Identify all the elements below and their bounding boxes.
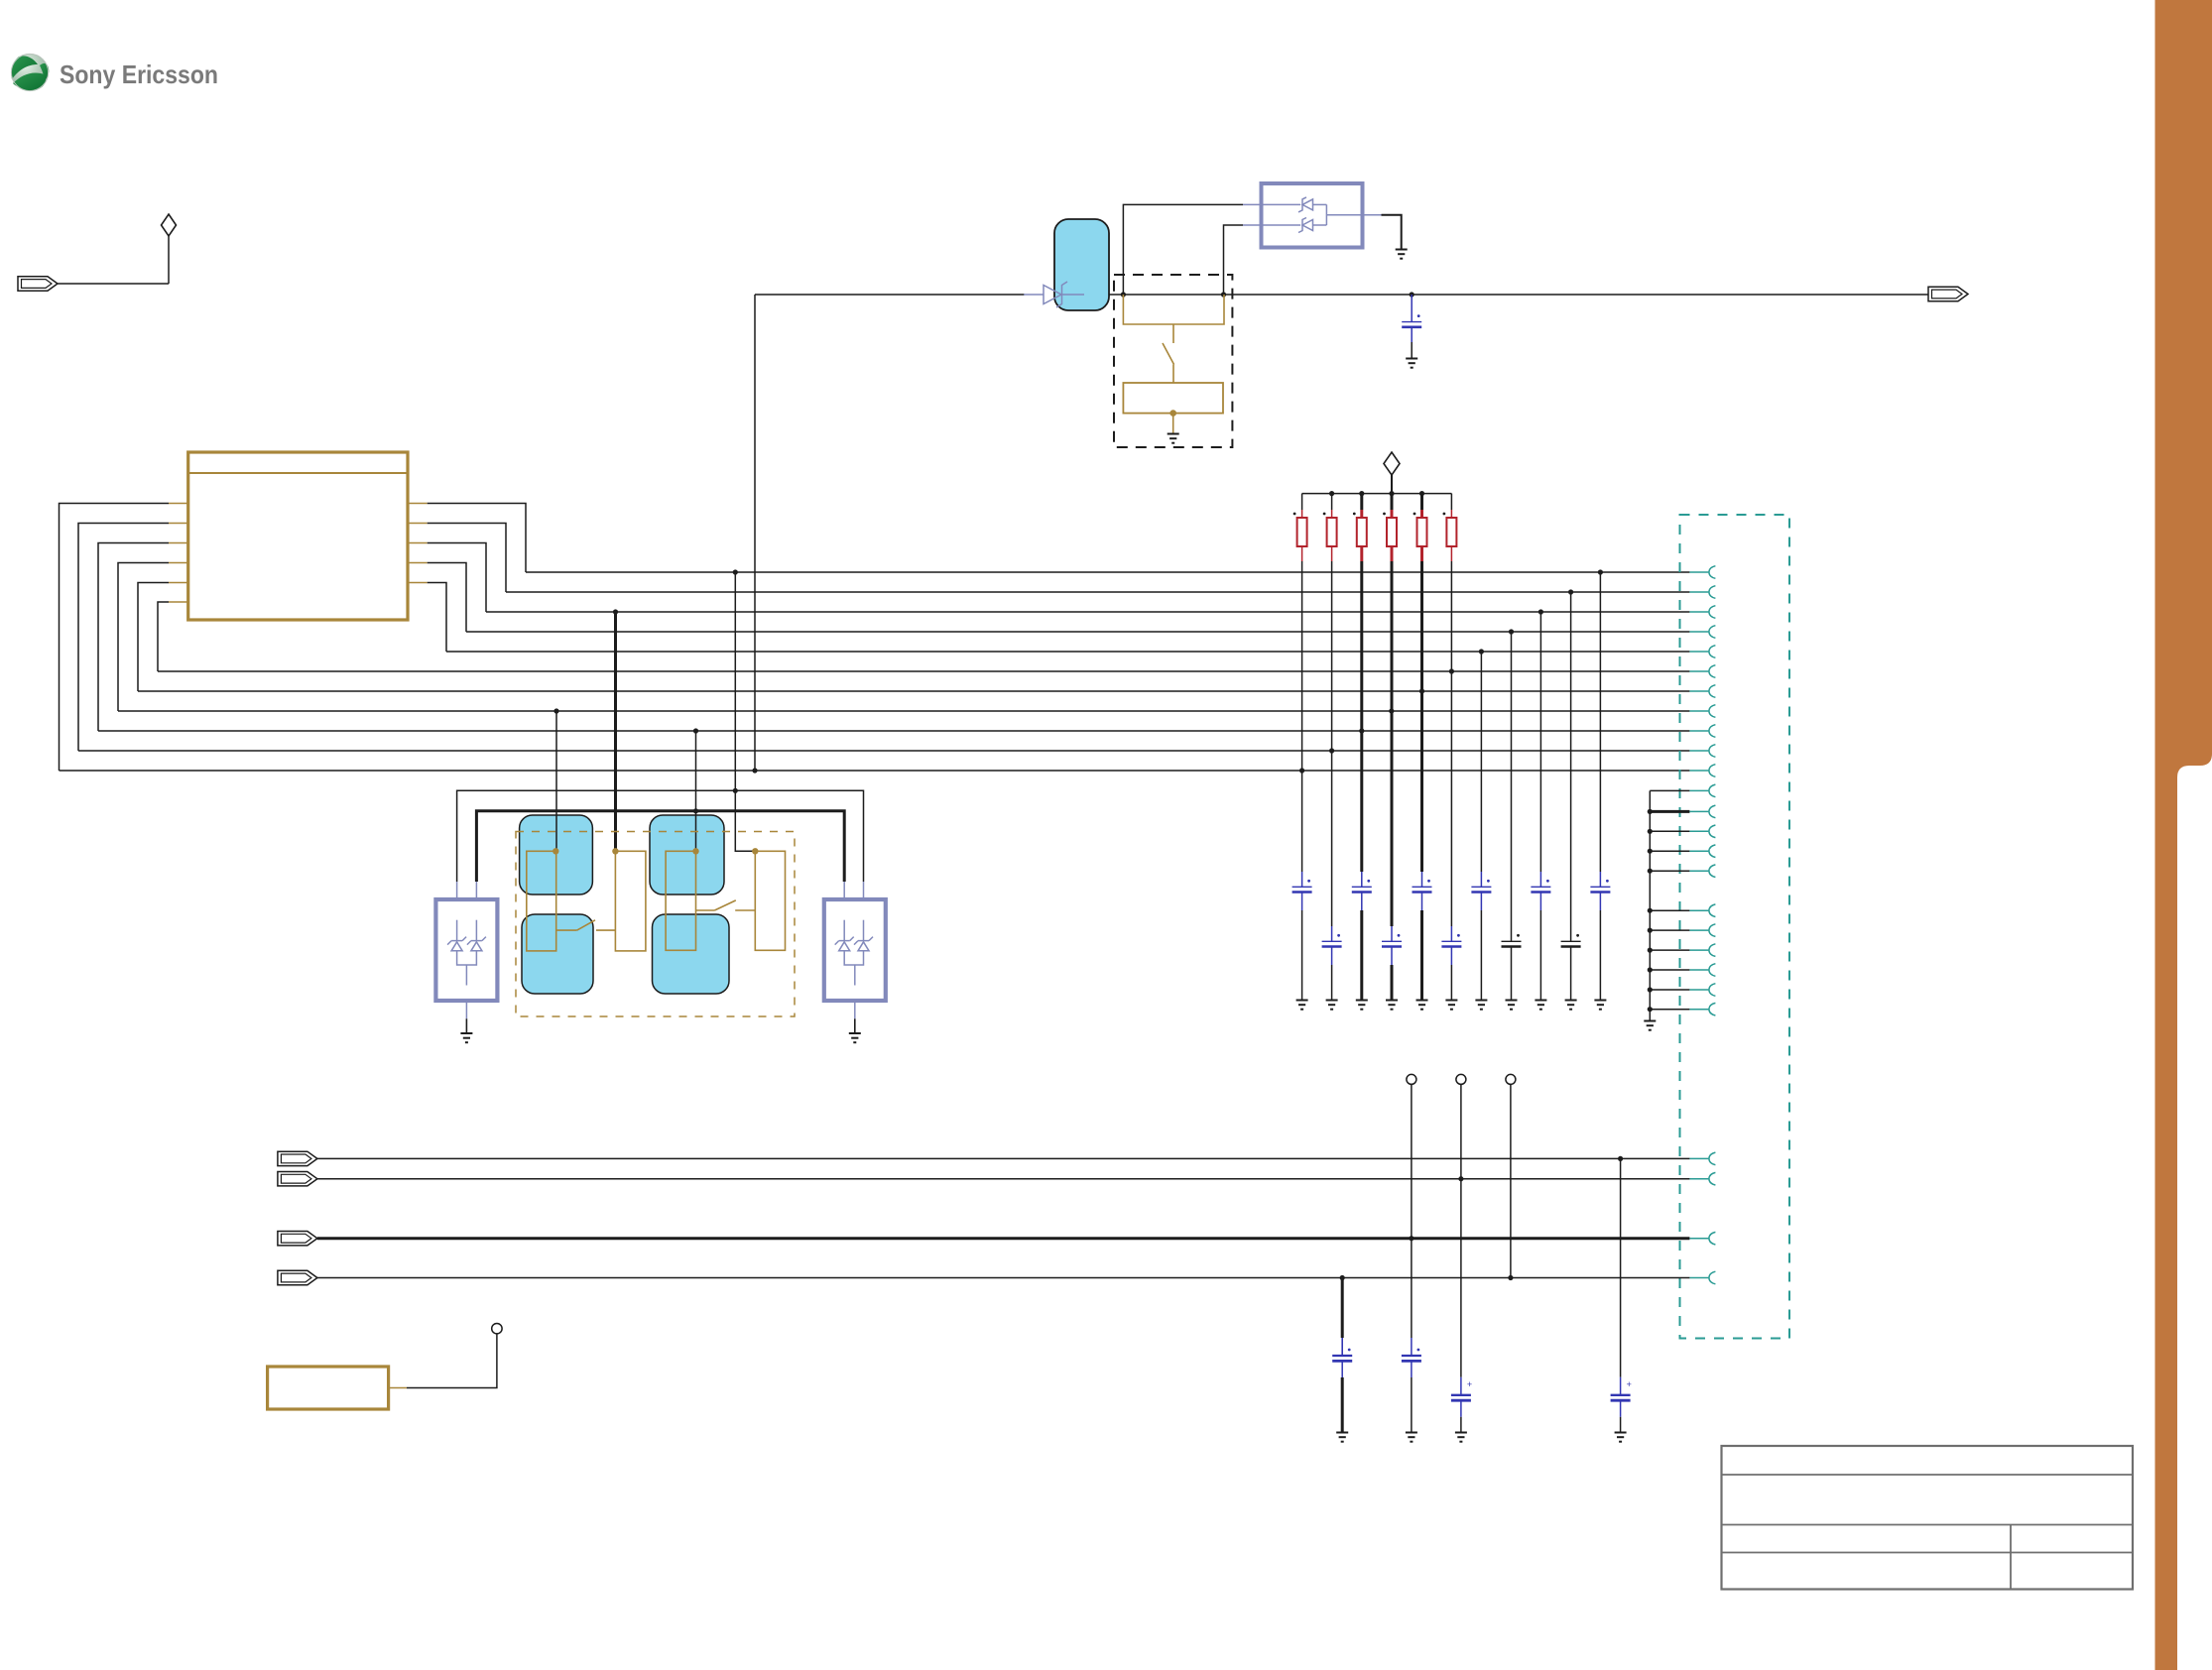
connector J1 pin 10 [1689,750,1708,752]
capacitor C6 lead top [1421,872,1423,887]
connector J1 pin 7 [1689,690,1708,692]
capacitor C3 lead top [1331,926,1333,941]
wire IC right pin 3 to bus [428,543,486,613]
IC U1 right pin 4 stub [408,562,428,564]
switch S1 stem [1172,324,1174,343]
capacitor C7 lead bottom [1450,947,1452,966]
junction line 9 x=701 [693,728,698,733]
resistor rail [1302,493,1452,495]
switch S3 blade [714,900,735,910]
IC U1 right pin 1 stub [408,503,428,505]
tan junction 1 [553,848,558,854]
wire to D2 pin1 [1123,204,1243,295]
junction tan battery ID [1169,410,1176,417]
connector flag AUDIO4 [278,1270,317,1284]
resistor R4 [1387,518,1397,546]
junction bus line 9 to column [1359,728,1364,733]
component box U2 (tan) [268,1367,389,1409]
ground at connector bar [1644,1021,1656,1030]
capacitor C2 lead bottom [1301,893,1303,911]
wire C13 upper [1341,1338,1343,1356]
capacitor C12 lead top [1599,872,1601,887]
pin stub D2 pin1 [1243,203,1262,205]
capacitor C9 lead top [1511,926,1513,941]
title block row line 3 [1722,1552,2134,1554]
capacitor C10 [1531,886,1550,888]
resistor R4 lead bottom [1391,546,1394,561]
capacitor C4 [1352,886,1372,888]
IC U1 left pin 1 stub [169,503,188,505]
ground column 6 [1445,1001,1457,1010]
junction ground bar 4 [1648,849,1653,854]
resistor R6 [1446,518,1456,546]
junction ground bar 8 [1648,948,1653,953]
junction bus line 1 to column [1598,569,1603,574]
connector flag AUDIO1 [278,1151,317,1165]
D4 (right) lead pin1 outside [843,882,845,899]
switch S1 blade [1163,343,1174,365]
capacitor C16 [1620,1377,1622,1395]
wire audio line 2 [317,1178,1690,1180]
resistor R2 lead top [1331,510,1333,518]
D2 zener diode bottom [1298,218,1306,233]
test point TP1 [1407,1074,1416,1084]
capacitor C2 [1292,886,1312,888]
connector J1 pin 2 [1689,591,1708,593]
junction bus line 10 to column [1329,748,1334,753]
capacitor C11 lead bottom [1570,947,1572,966]
wire ID box to ground [1172,414,1174,433]
junction resistor rail [1359,491,1364,496]
bus wire line 6 (y=677) [158,670,1689,672]
D4 (right) lead pin2 outside [863,882,865,899]
connector J1 dashed outline [1680,515,1790,1339]
wire bus to audio x=620 (bold) [614,612,617,851]
switch S3 pole [696,909,715,911]
switch S2 throw [596,929,615,931]
IC U1 right pin 5 stub [408,582,428,584]
IC U1 left pin 5 stub [169,582,188,584]
D3 (left) join [457,951,477,965]
D2 zener diode top [1298,197,1306,212]
capacitor C15 [1460,1377,1462,1395]
tan junction 2 [612,848,618,854]
capacitor C4 lead top [1361,872,1363,887]
junction bus line11 x=761 [752,768,757,773]
ground battery ID [1167,434,1179,443]
connector flag VBAT (right) [1928,287,1968,300]
junction bus line 11 to column [1299,768,1304,773]
title block row line 1 [1722,1474,2134,1476]
wire column 2 upper [1331,561,1333,926]
resistor R2 [1327,518,1337,546]
wire main VBAT rail right [1108,294,1928,296]
connector flag VBAT (top-left) [18,277,58,291]
connector J1 pin 1 [1689,571,1708,573]
D2 output wire black [1382,215,1402,249]
capacitor C6 lead bottom [1421,893,1423,911]
wire main VBAT rail [755,294,1025,296]
wire ground-bar pin 18 [1650,929,1689,931]
wire column 5 upper [1420,561,1423,872]
wire ground-bar pin 17 [1650,909,1689,911]
ground column 5 [1416,1001,1428,1010]
wire column 4 upper [1391,561,1394,926]
junction bus line 3 to column [1538,609,1543,614]
bus wire line 10 (y=757) [78,750,1689,752]
tan loop B [615,851,646,951]
thermistor U-link (tan) [1123,295,1224,324]
diamond power node (top-left) [162,214,177,236]
junction ground bar 7 [1648,928,1653,933]
wire ground-bar pin 16 [1650,870,1689,872]
IC U1 title separator [188,472,408,474]
capacitor C11 [1561,940,1581,942]
junction ground bar 11 [1648,1007,1653,1012]
wire ground-bar pin 12 [1650,789,1689,791]
ground column 9 [1535,1001,1546,1010]
wire audio line 3 (bold) [317,1237,1690,1240]
connector J1 pin 22 [1689,1009,1708,1011]
capacitor C2 lead top [1301,872,1303,887]
wire TP1 to C14 [1411,1239,1413,1338]
resistor R6 lead top [1450,510,1452,518]
connector J1 pin 17 [1689,909,1708,911]
wire to D2 pin2 [1224,225,1244,295]
wire column 7 upper [1480,652,1482,872]
wire flag to corner [58,283,169,285]
junction resistor rail [1389,491,1394,496]
IC U1 left pin 3 stub [169,542,188,544]
speaker box SP4 (bottom-right) [653,914,730,994]
junction ground bar 5 [1648,869,1653,874]
svg-text:+: + [1467,1379,1472,1389]
wire ground-bar pin 20 [1650,969,1689,971]
Sony Ericsson logo sphere [11,54,49,91]
ground at C1 [1406,359,1417,368]
resistor R3 lead bottom [1360,546,1363,561]
D3 (left) ground lead [465,1001,467,1018]
svg-text:Sony Ericsson: Sony Ericsson [60,60,218,89]
wire bus to audio x=701 [695,731,697,851]
capacitor C12 lead bottom [1599,893,1601,911]
tan junction 4 [752,848,758,854]
resistor R1 lead bottom [1301,546,1303,561]
diamond power node (resistors) [1384,452,1400,475]
resistor R5 lead top [1420,510,1423,518]
wire IC left pin 3 to bus [98,543,169,732]
test point TP3 [1506,1074,1516,1084]
D3 (left) lead pin2 outside [475,882,477,899]
connector J1 pin 13 [1689,810,1708,812]
wire TP3 down [1510,1084,1512,1277]
wire rail to resistor R3 [1360,494,1363,510]
wire rail to resistor R6 [1450,494,1452,510]
capacitor C11 lead top [1570,926,1572,941]
wire vertical from main rail to bus [754,295,756,771]
connector J1 pin 5 [1689,651,1708,653]
wire U2 to test point [407,1334,497,1388]
capacitor C1 lead top [1411,295,1413,322]
resistor R6 lead bottom [1450,546,1452,561]
IC U1 right pin 2 stub [408,523,428,525]
wire column 1 upper [1301,561,1303,872]
connector J1 pin 24 [1689,1178,1708,1180]
junction ground bar 10 [1648,987,1653,992]
junction bus line 7 to column [1419,688,1424,693]
connector J1 pin 26 [1689,1277,1708,1279]
capacitor C13 [1341,1338,1343,1356]
capacitor C10 lead bottom [1539,893,1541,911]
wire IC left pin 1 to bus [60,504,170,772]
ground column 11 [1594,1001,1606,1010]
bus wire line 4 (y=637) [466,631,1689,633]
connector J1 pin 20 [1689,969,1708,971]
junction line 3 x=620 [613,609,618,614]
switch S1 to box [1172,365,1174,384]
connector J1 pin 4 [1689,631,1708,633]
junction line4 x=1523 [1508,1275,1513,1280]
D2 internal lead2 [1262,224,1301,226]
junction bus line 4 to column [1509,629,1514,634]
wire bus to audio x=561 [555,711,557,851]
switch S2 pole [556,929,577,931]
capacitor C7 [1441,940,1461,942]
IC U1 left pin 2 stub [169,523,188,525]
capacitor C5 [1382,940,1402,942]
title block row line 2 [1722,1524,2134,1526]
D3 (left) lead pin1 inside [456,920,458,941]
connector J1 pin 6 [1689,670,1708,672]
wire IC left pin 6 to bus [158,602,169,671]
wire audio line 4 [317,1277,1690,1279]
junction ground bar 2 [1648,809,1653,814]
IC U1 box [188,452,408,620]
bus wire line 9 (y=737) [98,730,1689,732]
IC U1 right pin 3 stub [408,542,428,544]
IC U1 left pin 6 stub [169,601,188,603]
junction resistor rail [1419,491,1424,496]
D4 (right) center lead [854,965,856,986]
wire rail to resistor R1 [1301,494,1303,510]
ground column 2 [1326,1001,1338,1010]
resistor R1 [1297,518,1307,546]
connector J1 pin 16 [1689,870,1708,872]
D4 (right) zener 1 [839,940,850,942]
resistor R5 lead bottom [1420,546,1423,561]
junction main-rail x=1132 [1121,292,1126,297]
wire IC left pin 2 to bus [78,524,169,752]
ground at D2 output [1396,250,1408,259]
IC U1 left pin 4 stub [169,562,188,564]
junction audio thick-net x=701 [693,808,698,813]
wire TP1 down [1411,1084,1413,1238]
diode D1 leads [1024,294,1044,296]
wire column 10 upper [1570,592,1572,926]
resistor R5 [1417,518,1427,546]
resistor R2 lead bottom [1331,546,1333,561]
junction resistor rail [1329,491,1334,496]
connector J1 pin 23 [1689,1157,1708,1159]
D3 (left) lead pin2 inside [475,920,477,941]
capacitor C8 lead top [1480,872,1482,887]
junction ground bar 6 [1648,908,1653,913]
ground column 1 [1296,1001,1308,1010]
test point TP4 [492,1324,502,1334]
diode D1 (zener at battery) [1044,286,1061,304]
wire IC right pin 4 to bus [428,563,466,633]
bus wire line 7 (y=697) [138,690,1689,692]
dashed box audio switch block [516,832,795,1017]
ESD protection D2 box [1262,183,1363,248]
capacitor C4 lead bottom [1361,893,1363,911]
D4 (right) lead pin1 inside [843,920,845,941]
bus wire line 1 (y=577) [526,571,1689,573]
speaker box SP2 (top-right) [650,815,724,895]
ESD diode box D3 (left) [435,899,497,1001]
D3 (left) lead pin1 outside [456,882,458,899]
speaker box SP1 (top-left) [520,815,593,895]
junction main-rail x=1233 [1221,292,1226,297]
ground D3 (left) [460,1033,472,1042]
ground column 8 [1506,1001,1518,1010]
battery pack B1 (blue rounded box) [1054,219,1109,310]
capacitor C1 lead bottom [1411,327,1413,342]
D3 (left) center lead [465,965,467,986]
title block column divider [2010,1525,2012,1590]
tan loop D [755,851,785,950]
resistor R3 lead top [1360,510,1363,518]
D4 (right) ground lead [854,1001,856,1018]
dashed box battery internals [1114,275,1232,447]
wire IC right pin 1 to bus [428,504,526,573]
ground bottom cap [1615,1433,1627,1442]
D2 anode join [1325,204,1327,225]
wire rail to resistor R2 [1331,494,1333,510]
tan junction 3 [692,848,698,854]
tan loop A [527,851,556,951]
connector J1 pin 25 [1689,1238,1708,1240]
capacitor C6 [1413,886,1432,888]
connector J1 pin 8 [1689,710,1708,712]
junction ground bar 9 [1648,967,1653,972]
svg-text:+: + [1627,1379,1632,1389]
wire column 3 upper [1360,561,1363,872]
wire corner up to diamond [168,235,170,284]
switch S2 blade [577,920,595,930]
wire line1 to C16 [1620,1158,1622,1376]
connector J1 pin 9 [1689,730,1708,732]
wire diamond to rail [1391,475,1393,494]
wire TP2 to C15 [1460,1179,1462,1377]
capacitor C9 [1502,940,1522,942]
resistor R4 lead top [1391,510,1394,518]
ground bottom cap [1455,1433,1467,1442]
capacitor C3 lead bottom [1331,947,1333,966]
junction line 8 x=561 [553,708,558,713]
wire ground-bar pin 13 [1650,810,1689,813]
pin stub D2 pin2 [1243,224,1262,226]
connector flag AUDIO2 [278,1172,317,1186]
wire IC left pin 5 to bus [138,583,169,692]
capacitor C3 [1322,940,1342,942]
capacitor C9 lead bottom [1511,947,1513,966]
D4 (right) lead pin2 inside [863,920,865,941]
wire TP2 down [1460,1084,1462,1178]
wire column 8 upper [1511,632,1513,926]
junction line3 x=1423 [1409,1236,1413,1241]
wire column 11 upper [1599,572,1601,872]
wire audio thick net [476,811,844,882]
test point TP2 [1456,1074,1466,1084]
junction line2 x=1473 [1458,1176,1463,1181]
capacitor C1 [1402,321,1421,323]
junction bus line 8 to column [1389,708,1394,713]
D4 (right) zener 2 [858,940,869,942]
wire audio top net [457,790,864,882]
capacitor C8 lead bottom [1480,893,1482,911]
ground column 3 [1356,1001,1368,1010]
connector J1 pin 18 [1689,929,1708,931]
capacitor C7 lead top [1450,926,1452,941]
switch S3 throw [735,909,755,911]
wire ground-bar pin 21 [1650,989,1689,991]
junction line 1 x=741 [733,569,738,574]
battery ID box (tan) [1123,383,1223,414]
junction audio top-net x=741 [733,788,738,793]
wire ground-bar pin 14 [1650,830,1689,832]
D3 (left) zener 2 [471,940,482,942]
wire rail to resistor R4 [1391,494,1394,510]
capacitor C5 lead bottom [1391,947,1393,966]
bus wire line 5 (y=657) [446,651,1689,653]
connector flag AUDIO3 [278,1232,317,1246]
resistor R1 lead top [1301,510,1303,518]
ground column 10 [1565,1001,1577,1010]
bus wire line 8 (y=717) [118,710,1689,712]
bus wire line 11 (y=777) [60,770,1690,772]
D3 (left) zener 1 [451,940,462,942]
connector J1 pin 11 [1689,770,1708,772]
ground bottom cap [1406,1433,1417,1442]
junction bus line 5 to column [1479,649,1484,654]
ground bottom cap [1336,1433,1348,1442]
capacitor C10 lead top [1539,872,1541,887]
connector J1 pin 14 [1689,830,1708,832]
ground bar wire (connector) [1649,790,1651,1020]
wire IC right pin 2 to bus [428,524,506,593]
capacitor C5 lead top [1391,926,1393,941]
ground column 4 [1386,1001,1398,1010]
junction ground bar 3 [1648,829,1653,834]
wire column 9 upper [1539,612,1541,872]
wire ground-bar pin 15 [1650,850,1689,852]
resistor R3 [1357,518,1367,546]
wire ground-bar pin 22 [1650,1009,1689,1011]
ESD diode box D4 (right) [824,899,886,1001]
junction line1 x=1633 [1618,1156,1623,1161]
connector J1 pin 19 [1689,949,1708,951]
wire IC left pin 4 to bus [118,563,169,712]
junction VBAT cap [1410,292,1414,297]
wire IC right pin 5 to bus [428,583,446,653]
D4 (right) join [844,951,863,965]
connector J1 pin 12 [1689,789,1708,791]
capacitor C8 [1471,886,1491,888]
bus wire line 3 (y=617) [486,611,1689,613]
capacitor C12 [1590,886,1610,888]
wire ground-bar pin 19 [1650,949,1689,951]
